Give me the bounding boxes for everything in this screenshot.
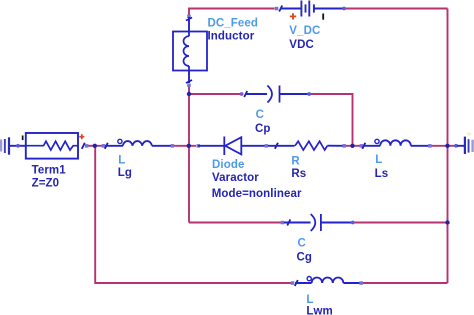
capacitor C Cg straight plate	[320, 214, 322, 231]
pin dot right port	[454, 144, 458, 148]
wire main net Lg to Diode	[174, 145, 197, 147]
Term1 box	[26, 133, 78, 159]
wire stub Diode pin1	[198, 145, 224, 147]
minus tick (black) V_DC	[322, 14, 324, 20]
inductor L Ls pin1 circle	[375, 139, 379, 143]
wire Cp branch left	[189, 93, 241, 95]
wire top net from V_DC to right corner	[345, 8, 448, 10]
inductor L Lg coil	[123, 141, 152, 146]
DC_Feed pin2 arrow	[186, 80, 192, 83]
wire stub R Rs pin2	[327, 145, 343, 147]
inductor L Lwm coil	[312, 278, 344, 284]
pin square L Ls pin1	[360, 144, 364, 148]
svg-text:DC_Feed: DC_Feed	[208, 18, 259, 30]
pin dot C Cp pin2	[307, 92, 311, 96]
wire right port stub	[457, 145, 465, 147]
wire stub V_DC pin1	[280, 8, 301, 10]
inductor L Lg pin1 circle	[118, 139, 122, 143]
faint plus at right port	[467, 132, 472, 137]
resistor R Rs zigzag	[295, 141, 327, 150]
battery V_DC plate tall 1	[300, 1, 302, 17]
svg-text:Lg: Lg	[118, 167, 132, 179]
junction node diode/DC_Feed at main line	[187, 144, 191, 148]
wire stub C Cg pin1	[284, 222, 311, 224]
pin arrow C Cp pin1	[244, 91, 247, 97]
pin arrow L Ls pin1	[362, 143, 365, 149]
junction node right vertical at main line	[445, 144, 449, 148]
diode triangle	[225, 137, 241, 154]
svg-text:C: C	[298, 237, 306, 249]
wire vertical net DC_Feed / diode node	[188, 87, 190, 223]
inductor L Lwm pin1 circle	[307, 277, 311, 281]
svg-text:Lwm: Lwm	[306, 306, 333, 315]
capacitor C Cp straight plate	[279, 86, 281, 103]
battery V_DC plate short 2	[313, 4, 315, 12]
svg-text:Diode: Diode	[212, 159, 244, 171]
wire stub L Lwm pin1	[295, 282, 312, 284]
battery V_DC plate short 1	[305, 4, 307, 12]
pin square Diode pin2 / R Rs pin1	[265, 144, 269, 148]
DC_Feed pin1 arrow	[186, 18, 192, 21]
svg-text:Rs: Rs	[291, 168, 306, 180]
DC_Feed pin1 square (top)	[187, 15, 191, 19]
wire Cp branch right with corner down to main	[310, 94, 353, 145]
svg-text:L: L	[375, 154, 382, 166]
capacitor C Cp curved plate	[267, 86, 272, 103]
wire stub L Ls pin1	[363, 145, 380, 147]
wire port P1 stub	[10, 145, 26, 147]
port P1 ground bars (left)	[0, 137, 10, 154]
wire stub R Rs pin1	[268, 145, 295, 147]
svg-text:Z=Z0: Z=Z0	[32, 178, 60, 190]
pin dot port P1 / Term1 pin1	[16, 144, 20, 148]
resistor inside Term1	[27, 141, 78, 150]
wire stub L Ls pin2	[411, 145, 430, 147]
svg-text:C: C	[256, 109, 264, 121]
pin square L Lwm pin2	[359, 281, 363, 285]
junction node at x95 main line	[93, 144, 97, 148]
junction node right vertical / Cg branch	[445, 220, 449, 224]
wire stub L Lg pin1	[105, 145, 123, 147]
inductor L Ls coil	[380, 140, 411, 146]
junction node DC_Feed / Cp branch	[187, 92, 191, 96]
wire stub C Cp pin1	[245, 93, 267, 95]
wire bottom Lwm-branch right segment	[362, 282, 448, 284]
svg-text:Term1: Term1	[32, 165, 67, 177]
svg-text:Ls: Ls	[375, 168, 389, 180]
pin arrow L Lwm pin1	[295, 280, 298, 286]
pin square R Rs pin2	[342, 144, 346, 148]
wire stub C Cp pin2	[280, 93, 309, 95]
DC_Feed inner vertical line	[188, 32, 190, 37]
plus marker (orange) V_DC	[290, 13, 296, 19]
junction node Cp branch at main line	[350, 144, 354, 148]
capacitor C Cg curved plate	[311, 214, 316, 231]
wire Cg branch left	[189, 222, 282, 224]
pin square L Lwm pin1	[291, 281, 295, 285]
wire main net Ls to right port	[431, 145, 457, 147]
pin square C Cp pin1 (round dot)	[240, 92, 244, 96]
pin arrow V_DC pin1	[279, 6, 282, 12]
wire stub DC_Feed pin2	[188, 71, 190, 84]
pin dot V_DC pin2	[342, 7, 346, 11]
svg-text:V_DC: V_DC	[289, 25, 320, 37]
pin square C Cg pin1	[281, 221, 285, 225]
svg-text:Varactor: Varactor	[212, 172, 259, 184]
DC_Feed coil (bulging left)	[184, 36, 189, 66]
pin square L Lg pin2	[171, 144, 175, 148]
svg-text:L: L	[306, 294, 313, 306]
wire stub L Lg pin2	[152, 145, 172, 147]
wire main net Rs to Ls	[345, 145, 362, 147]
svg-text:Inductor: Inductor	[208, 30, 255, 42]
battery V_DC plate tall 2	[308, 1, 310, 17]
pin square V_DC pin1	[275, 7, 279, 11]
port P2 ground bars (right)	[464, 137, 474, 154]
pin square L Ls pin2	[428, 144, 432, 148]
wire stub Diode pin2	[241, 145, 265, 147]
wire stub L Lwm pin2	[343, 282, 360, 284]
svg-text:Cp: Cp	[255, 123, 271, 135]
diode cathode bar	[223, 137, 225, 156]
wire stub V_DC pin2	[314, 8, 344, 10]
pin arrow Term1 pin2	[82, 143, 85, 149]
pin dot C Cg pin2	[351, 221, 355, 225]
wire right vertical net	[447, 9, 449, 284]
pin1 tick (black dash) of Term1	[22, 136, 24, 141]
plus marker (orange) at Term1 pin2	[79, 134, 84, 139]
svg-text:Mode=nonlinear: Mode=nonlinear	[212, 188, 302, 200]
pin square L Lg pin1	[102, 144, 106, 148]
wire main net Term1 to Lg	[88, 145, 104, 147]
pin square Diode pin1	[197, 144, 201, 148]
pin arrow R Rs pin1	[275, 143, 278, 149]
svg-text:Cg: Cg	[297, 252, 313, 264]
pin square Term1 pin2	[85, 144, 89, 148]
pin arrow L Lg pin1	[105, 143, 108, 149]
wire stub DC_Feed pin1	[188, 17, 190, 32]
svg-text:R: R	[291, 156, 300, 168]
pin arrow C Cg pin1	[287, 220, 290, 226]
DC_Feed Inductor box	[173, 32, 207, 71]
DC_Feed pin2 square	[187, 84, 191, 88]
wire bottom Lwm-branch left segment	[95, 147, 291, 283]
svg-text:L: L	[118, 154, 125, 166]
svg-text:VDC: VDC	[289, 39, 314, 51]
wire top net from DC_Feed to V_DC	[189, 9, 275, 15]
wire stub C Cg pin2	[321, 222, 352, 224]
wire Cg branch right	[353, 222, 448, 224]
